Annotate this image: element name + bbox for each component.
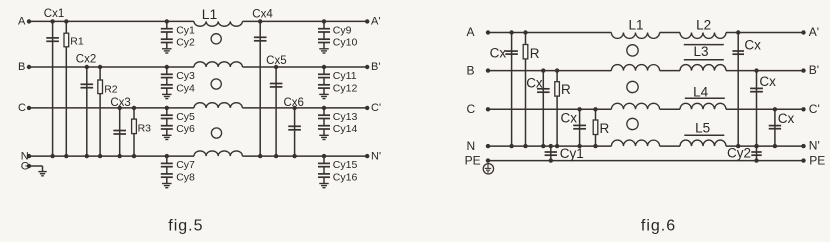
junction Cx3/C rail — [118, 106, 122, 110]
svg-text:Cy15: Cy15 — [333, 159, 358, 171]
junction Cy2/PE rail (fig.6) — [754, 158, 758, 162]
node A terminal (fig.5) — [18, 16, 31, 28]
svg-text:Cy16: Cy16 — [333, 171, 358, 183]
node B terminal (fig.5) — [18, 61, 31, 73]
junction Cx2/N rail — [85, 154, 89, 158]
junction Cx-C/N rail (fig.6) — [577, 144, 581, 148]
capacitor Cy1 — [161, 21, 173, 35]
junction CxA'/A rail (fig.6) — [736, 30, 740, 34]
capacitor Cy13 — [318, 108, 330, 122]
wire A rail right segment (fig.6) — [726, 32, 804, 34]
svg-text:Cy2: Cy2 — [176, 37, 195, 49]
core circle 3 (fig.6) — [627, 118, 638, 129]
junction Cx-B/B rail (fig.6) — [541, 68, 545, 72]
svg-text:C: C — [467, 102, 476, 116]
ground symbol on G lead (fig.5) — [38, 172, 46, 176]
node C' terminal (fig.5) — [365, 102, 381, 114]
label Cy2 (fig.6) — [727, 146, 751, 161]
label L1 (fig.5) — [202, 6, 218, 22]
capacitor Cx (output phase B, fig.6) — [750, 71, 763, 147]
svg-text:A': A' — [809, 25, 819, 39]
svg-text:L2: L2 — [696, 18, 711, 33]
resistor R (phase B, fig.6) — [555, 71, 560, 147]
label Cx5 — [266, 55, 286, 67]
core circle 2 (fig.6) — [627, 81, 638, 92]
capacitor Cy6 — [161, 122, 173, 135]
svg-text:L3: L3 — [693, 44, 708, 59]
svg-text:L1: L1 — [202, 6, 218, 22]
inductor L1 winding N (fig.6) — [611, 140, 659, 146]
node A' terminal (fig.6) — [801, 25, 819, 39]
svg-text:Cy12: Cy12 — [333, 82, 358, 94]
capacitor Cy15 — [318, 156, 330, 170]
svg-text:R: R — [600, 121, 610, 136]
label R (phase B, fig.6) — [561, 82, 571, 97]
junction Cy1/PE rail (fig.6) — [549, 158, 553, 162]
capacitor Cy14 — [318, 122, 330, 135]
wire N rail middle segment (fig.6) — [660, 145, 680, 147]
capacitor Cy2 — [161, 36, 173, 49]
wire G lead (fig.5) — [29, 166, 43, 172]
label Cy12 — [333, 82, 358, 94]
svg-text:Cx: Cx — [778, 111, 795, 126]
capacitor Cx5 — [270, 67, 283, 156]
capacitor Cx (phase B input, fig.6) — [537, 71, 550, 147]
svg-text:A': A' — [371, 16, 380, 28]
svg-text:Cy6: Cy6 — [176, 123, 195, 135]
junction Cy13/rail — [322, 106, 326, 110]
inductor L5 winding (fig.6) — [680, 140, 726, 146]
resistor R (phase C, fig.6) — [593, 109, 598, 146]
capacitor Cy9 — [318, 21, 330, 35]
label Cx (output phase C, fig.6) — [778, 111, 795, 126]
svg-text:L5: L5 — [695, 120, 710, 135]
label Cy16 — [333, 171, 358, 183]
node C terminal (fig.5) — [18, 102, 31, 114]
node N' terminal (fig.5) — [365, 150, 381, 162]
junction Cy1/rail — [165, 19, 169, 23]
junction Cx6/N rail — [292, 154, 296, 158]
junction R-C/C rail (fig.6) — [593, 107, 597, 111]
wire C rail left segment (fig.5) — [29, 107, 194, 109]
junction R-B/N rail (fig.6) — [555, 144, 559, 148]
inductor L1 winding B (fig.5) — [194, 62, 242, 67]
wire B rail right segment (fig.6) — [726, 70, 804, 72]
svg-text:Cx: Cx — [744, 38, 761, 53]
inductor L1 winding A (fig.5) — [194, 21, 242, 26]
svg-text:Cx: Cx — [759, 74, 776, 89]
core circle 3 of L1 (fig.5) — [211, 128, 221, 138]
node A terminal (fig.6) — [467, 25, 491, 39]
junction CxC'/N rail (fig.6) — [773, 144, 777, 148]
ground symbol below Cy6 — [162, 135, 172, 139]
node B terminal (fig.6) — [467, 63, 491, 77]
label Cy3 — [176, 70, 195, 82]
junction Cx3/N rail — [118, 154, 122, 158]
label Cy5 — [176, 111, 195, 123]
junction CxA'/N rail (fig.6) — [736, 144, 740, 148]
junction Cy1/N rail (fig.6) — [549, 144, 553, 148]
label Cy13 — [333, 111, 358, 123]
label Cx3 — [110, 97, 130, 109]
ground symbol below Cy16 — [319, 184, 329, 188]
capacitor Cy3 — [161, 67, 173, 81]
wire A rail left segment (fig.5) — [29, 20, 194, 22]
label Cy9 — [333, 25, 352, 37]
wire C rail left segment (fig.6) — [488, 108, 611, 110]
svg-text:C': C' — [371, 102, 381, 114]
caption fig.6 — [641, 218, 676, 235]
wire A rail middle segment (fig.6) — [660, 32, 680, 34]
label L4 (fig.6) — [693, 85, 709, 100]
junction Cx-A/N rail (fig.6) — [509, 144, 513, 148]
svg-text:L4: L4 — [693, 85, 709, 100]
ground symbol below Cy8 — [162, 184, 172, 188]
junction Cy2/N rail (fig.6) — [754, 144, 758, 148]
label R2 — [104, 84, 118, 96]
capacitor Cx3 — [113, 108, 126, 156]
junction Cx4/A rail — [258, 19, 262, 23]
svg-text:N': N' — [809, 139, 820, 153]
wire B rail left segment (fig.6) — [488, 70, 611, 72]
inductor L1 winding C (fig.5) — [194, 103, 242, 108]
label Cx (phase C input, fig.6) — [561, 111, 578, 126]
resistor R3 — [132, 108, 137, 156]
resistor R (phase A, fig.6) — [523, 33, 528, 147]
resistor R2 — [98, 67, 103, 156]
capacitor Cx4 — [254, 21, 267, 156]
capacitor Cy10 — [318, 36, 330, 49]
label Cy15 — [333, 159, 358, 171]
svg-text:PE: PE — [465, 153, 481, 167]
svg-text:Cy3: Cy3 — [176, 70, 195, 82]
capacitor Cy5 — [161, 108, 173, 122]
wire C rail right segment (fig.6) — [726, 108, 804, 110]
node A' terminal (fig.5) — [365, 16, 380, 28]
capacitor Cx (output phase C, fig.6) — [769, 109, 781, 146]
junction R-A/A rail (fig.6) — [523, 30, 527, 34]
junction Cy15/rail — [322, 154, 326, 158]
label L5 (fig.6) — [695, 120, 710, 135]
wire A rail right segment (fig.5) — [242, 20, 367, 22]
svg-text:Cy2: Cy2 — [727, 146, 751, 161]
ground symbol below Cy4 — [162, 94, 172, 98]
svg-text:Cx: Cx — [526, 75, 543, 90]
svg-text:G: G — [21, 160, 30, 172]
node B' terminal (fig.5) — [365, 61, 380, 73]
svg-text:Cy1: Cy1 — [560, 146, 584, 161]
label Cx (output phase A, fig.6) — [744, 38, 761, 53]
capacitor Cy12 — [318, 81, 330, 94]
capacitor Cx (phase A input, fig.6) — [505, 33, 518, 147]
junction R1/A rail — [64, 19, 68, 23]
junction R-A/N rail (fig.6) — [523, 144, 527, 148]
svg-text:Cx: Cx — [490, 45, 507, 60]
wire N rail right segment (fig.6) — [726, 145, 804, 147]
label Cy1 (fig.6) — [560, 146, 584, 161]
label Cy6 — [176, 123, 195, 135]
label Cx (phase B input, fig.6) — [526, 75, 543, 90]
junction Cx-A/A rail (fig.6) — [509, 30, 513, 34]
caption fig.5 — [168, 218, 203, 235]
node G terminal (fig.5) — [21, 160, 31, 172]
wire N rail left segment (fig.6) — [488, 145, 611, 147]
ground symbol below Cy10 — [319, 49, 329, 53]
junction R2/B rail — [98, 65, 102, 69]
label Cy10 — [333, 37, 358, 49]
label R (phase C, fig.6) — [600, 121, 610, 136]
label R (phase A, fig.6) — [530, 46, 540, 61]
label L3 (fig.6) — [693, 44, 708, 59]
svg-text:B': B' — [371, 61, 380, 73]
svg-text:Cx2: Cx2 — [76, 54, 96, 66]
junction Cx-C/C rail (fig.6) — [577, 107, 581, 111]
core bar above L4 (fig.6) — [685, 97, 725, 99]
svg-text:Cy5: Cy5 — [176, 111, 195, 123]
junction Cx2/B rail — [85, 65, 89, 69]
svg-text:Cy8: Cy8 — [176, 171, 195, 183]
node C' terminal (fig.6) — [801, 102, 819, 116]
wire PE rail (fig.6) — [488, 160, 804, 162]
junction Cx6/C rail — [292, 106, 296, 110]
junction CxC'/C rail (fig.6) — [773, 107, 777, 111]
label Cx1 — [44, 8, 64, 20]
label Cx (phase A input, fig.6) — [490, 45, 507, 60]
capacitor Cy1 (fig.6) — [545, 146, 557, 161]
node PE terminal (fig.6) — [465, 153, 491, 167]
ground symbol below Cy12 — [319, 94, 329, 98]
junction R-B/B rail (fig.6) — [555, 68, 559, 72]
svg-text:N: N — [467, 139, 476, 153]
svg-text:C': C' — [809, 102, 820, 116]
inductor L1 winding A (fig.6) — [611, 33, 659, 39]
wire C rail right segment (fig.5) — [242, 107, 367, 109]
svg-text:PE: PE — [809, 153, 825, 167]
capacitor Cy2 (fig.6) — [751, 146, 761, 161]
label Cy8 — [176, 171, 195, 183]
wire A rail left segment (fig.6) — [488, 32, 611, 34]
wire N rail right segment (fig.5) — [242, 155, 367, 157]
svg-text:L1: L1 — [628, 18, 643, 33]
junction Cy3/rail — [165, 65, 169, 69]
svg-text:Cy9: Cy9 — [333, 25, 352, 37]
label L2 (fig.6) — [696, 18, 711, 33]
ground symbol below Cy2 — [162, 49, 172, 53]
svg-text:R2: R2 — [104, 84, 118, 96]
inductor L3 winding (fig.6) — [680, 65, 726, 71]
label Cy11 — [333, 70, 357, 82]
junction Cx5/N rail — [274, 154, 278, 158]
capacitor Cy4 — [161, 81, 173, 94]
core circle 1 (fig.6) — [627, 45, 638, 56]
capacitor Cx (output phase A, fig.6) — [732, 33, 744, 147]
capacitor Cx6 — [288, 108, 301, 156]
svg-text:fig.5: fig.5 — [168, 218, 203, 235]
label Cy7 — [176, 159, 195, 171]
junction Cy11/rail — [322, 65, 326, 69]
svg-text:Cx: Cx — [561, 111, 578, 126]
svg-text:Cx4: Cx4 — [252, 8, 273, 20]
core bar lower between L2 and L3 (fig.6) — [684, 59, 724, 61]
capacitor Cy7 — [161, 156, 173, 170]
svg-text:N': N' — [371, 150, 381, 162]
core bar above L5 (fig.6) — [684, 134, 724, 136]
junction Cy5/rail — [165, 106, 169, 110]
node N' terminal (fig.6) — [801, 139, 819, 153]
svg-text:Cy14: Cy14 — [333, 123, 358, 135]
ground symbol below Cy14 — [319, 135, 329, 139]
capacitor Cx1 — [46, 21, 59, 156]
inductor L1 winding N (fig.5) — [194, 151, 242, 156]
junction Cx5/B rail — [274, 65, 278, 69]
junction Cy7/rail — [165, 154, 169, 158]
svg-text:A: A — [467, 25, 475, 39]
resistor R1 — [64, 21, 69, 156]
svg-text:C: C — [18, 102, 26, 114]
svg-text:Cy10: Cy10 — [333, 37, 358, 49]
capacitor Cx2 — [81, 67, 94, 156]
junction Cy9/rail — [322, 19, 326, 23]
label Cx2 — [76, 54, 96, 66]
junction Cx4/N rail — [258, 154, 262, 158]
label Cy2 — [176, 37, 195, 49]
inductor L2 winding (fig.6) — [680, 33, 726, 39]
junction Cx1/N rail — [50, 154, 54, 158]
svg-text:B': B' — [809, 63, 819, 77]
label Cy14 — [333, 123, 358, 135]
junction R2/N rail — [98, 154, 102, 158]
junction CxB'/N rail (fig.6) — [754, 144, 758, 148]
svg-text:A: A — [18, 16, 26, 28]
junction R3/N rail — [132, 154, 136, 158]
label R1 — [70, 36, 84, 48]
svg-text:B: B — [18, 61, 25, 73]
junction R3/C rail — [132, 106, 136, 110]
node N terminal (fig.6) — [467, 139, 491, 153]
wire C rail middle segment (fig.6) — [660, 108, 680, 110]
label L1 (fig.6) — [628, 18, 643, 33]
node C terminal (fig.6) — [467, 102, 491, 116]
inductor L1 winding C (fig.6) — [611, 103, 659, 109]
core circle 2 of L1 (fig.5) — [211, 79, 221, 89]
junction R-C/N rail (fig.6) — [593, 144, 597, 148]
label Cx (output phase B, fig.6) — [759, 74, 776, 89]
junction Cx-B/N rail (fig.6) — [541, 144, 545, 148]
core bar upper between L2 and L3 (fig.6) — [684, 44, 724, 46]
node N terminal (fig.5) — [21, 150, 31, 162]
inductor L1 winding B (fig.6) — [611, 65, 659, 71]
capacitor Cy16 — [318, 170, 330, 183]
svg-text:fig.6: fig.6 — [641, 218, 676, 235]
capacitor Cx (phase C input, fig.6) — [573, 109, 586, 146]
inductor L4 winding (fig.6) — [680, 103, 726, 109]
wire B rail right segment (fig.5) — [242, 66, 367, 68]
label Cx6 — [283, 97, 303, 109]
protective earth symbol (fig.6) — [483, 164, 493, 174]
junction R1/N rail — [64, 154, 68, 158]
label R3 — [138, 123, 152, 135]
wire B rail middle segment (fig.6) — [660, 70, 680, 72]
capacitor Cy11 — [318, 67, 330, 81]
svg-text:B: B — [467, 63, 475, 77]
node PE' terminal (fig.6) — [801, 153, 825, 167]
junction Cx1/A rail — [50, 19, 54, 23]
svg-text:Cy11: Cy11 — [333, 70, 357, 82]
junction CxB'/B rail (fig.6) — [754, 68, 758, 72]
capacitor Cy8 — [161, 170, 173, 183]
svg-text:R: R — [530, 46, 540, 61]
svg-text:Cy7: Cy7 — [176, 159, 195, 171]
label Cy4 — [176, 82, 195, 94]
svg-text:Cy4: Cy4 — [176, 82, 195, 94]
svg-text:R3: R3 — [138, 123, 152, 135]
core circle 1 of L1 (fig.5) — [211, 34, 221, 44]
wire N rail left segment (fig.5) — [29, 155, 194, 157]
svg-text:R1: R1 — [70, 36, 84, 48]
node B' terminal (fig.6) — [801, 63, 819, 77]
svg-text:Cy1: Cy1 — [176, 25, 195, 37]
label Cx4 — [252, 8, 273, 20]
svg-text:Cx1: Cx1 — [44, 8, 64, 20]
wire B rail left segment (fig.5) — [29, 66, 194, 68]
label Cy1 — [176, 25, 195, 37]
svg-text:R: R — [561, 82, 571, 97]
svg-text:Cy13: Cy13 — [333, 111, 358, 123]
